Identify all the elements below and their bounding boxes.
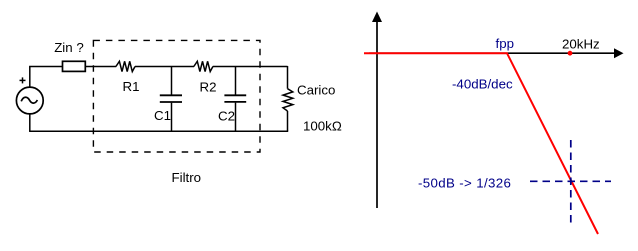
axis vertical: [372, 12, 382, 209]
svg-text:C2: C2: [218, 108, 235, 123]
svg-text:100kΩ: 100kΩ: [303, 119, 342, 134]
svg-text:-50dB -> 1/326: -50dB -> 1/326: [418, 175, 511, 190]
svg-text:R2: R2: [200, 80, 217, 95]
svg-text:fpp: fpp: [496, 36, 515, 51]
plus polarity mark: [20, 77, 26, 83]
svg-text:Carico: Carico: [297, 82, 335, 97]
svg-text:-40dB/dec: -40dB/dec: [452, 77, 513, 92]
axis horizontal: [369, 48, 624, 58]
capacitor C2: [224, 67, 246, 132]
svg-text:Zin ?: Zin ?: [54, 40, 84, 55]
crosshair dashed vertical: [570, 140, 572, 223]
wire top left: [29, 66, 62, 68]
svg-text:Filtro: Filtro: [172, 170, 202, 185]
filter dashed box: [93, 40, 260, 152]
wire bottom: [29, 130, 288, 132]
svg-text:C1: C1: [154, 108, 171, 123]
wire source bottom: [29, 114, 31, 131]
wire Zin to R1: [85, 66, 116, 68]
response curve red: [364, 53, 598, 234]
wire R1 to R2: [135, 66, 194, 68]
capacitor C1: [160, 67, 182, 132]
resistor Carico: [283, 66, 293, 131]
wire R2 to load node: [213, 66, 288, 68]
wire source top: [29, 67, 31, 88]
crosshair dashed horizontal: [530, 180, 611, 182]
ac source V: [16, 87, 43, 114]
resistor Zin: [63, 61, 86, 71]
marker dot 20kHz: [568, 51, 573, 56]
resistor R2: [194, 61, 213, 71]
resistor R1: [116, 61, 135, 71]
svg-text:20kHz: 20kHz: [562, 36, 600, 51]
svg-text:R1: R1: [123, 79, 140, 94]
